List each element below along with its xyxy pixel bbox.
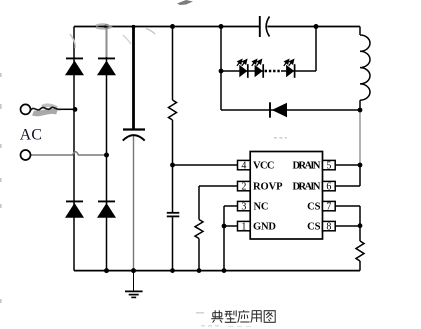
svg-text:2: 2 — [241, 182, 246, 193]
svg-text:5: 5 — [326, 161, 331, 172]
svg-text:CS: CS — [307, 202, 321, 213]
svg-text:8: 8 — [326, 222, 331, 233]
svg-text:ROVP: ROVP — [253, 182, 283, 193]
svg-text:AC: AC — [20, 127, 42, 144]
svg-text:7: 7 — [326, 202, 331, 213]
svg-text:VCC: VCC — [253, 161, 275, 172]
svg-text:GND: GND — [253, 222, 276, 233]
svg-text:DRAIN: DRAIN — [293, 182, 321, 193]
svg-text:3: 3 — [241, 202, 246, 213]
svg-text:1: 1 — [241, 222, 246, 233]
svg-text:NC: NC — [254, 202, 269, 213]
svg-text:CS: CS — [307, 222, 321, 233]
svg-text:4: 4 — [241, 161, 246, 172]
svg-text:6: 6 — [326, 182, 331, 193]
svg-text:DRAIN: DRAIN — [293, 161, 321, 172]
